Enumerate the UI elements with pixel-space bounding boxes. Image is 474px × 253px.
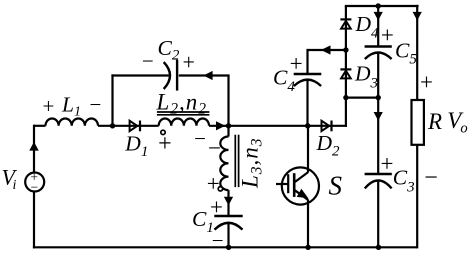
wire top rail xyxy=(345,5,419,7)
diode D4 xyxy=(340,19,351,28)
transistor S gate lead xyxy=(276,183,288,185)
svg-text:−: − xyxy=(424,165,438,191)
diode D2 xyxy=(322,121,332,132)
svg-text:−: − xyxy=(208,136,221,161)
wire node E down to main line xyxy=(345,98,347,127)
junction node C (D2/C4/S) xyxy=(305,123,310,128)
wire bottom rail xyxy=(33,246,417,248)
wire top rail to D4 xyxy=(345,6,347,98)
junction bottom rail C3 xyxy=(376,245,381,250)
svg-text:−: − xyxy=(194,127,206,151)
svg-text:+: + xyxy=(381,151,394,176)
svg-text:+: + xyxy=(420,70,433,95)
wire left vertical top (Vi to main line) xyxy=(33,125,35,174)
capacitor C2 plate xyxy=(176,60,178,91)
wire C4 corner down to plate xyxy=(306,49,308,74)
wire C2 loop top right segment xyxy=(179,74,230,76)
current arrow Vi up xyxy=(29,142,38,151)
current arrow L3 down xyxy=(224,197,233,206)
wire L2 to node B xyxy=(209,125,229,127)
svg-text:+: + xyxy=(290,51,303,76)
transistor S (IGBT) xyxy=(276,167,319,204)
svg-text:+: + xyxy=(158,131,172,157)
transistor S emitter diagonal xyxy=(294,190,308,200)
wire R to bottom rail xyxy=(416,145,418,249)
current arrow C2 loop left xyxy=(203,71,212,80)
wire node B down to L3 xyxy=(227,126,229,137)
inductor L2 xyxy=(159,119,209,126)
junction bottom rail C1 xyxy=(226,245,231,250)
diode D3 xyxy=(340,69,351,78)
wire C2 loop left vertical xyxy=(111,74,113,125)
capacitor C3 curved plate xyxy=(365,180,392,188)
wire node F down to C3 xyxy=(377,98,379,174)
svg-text:+: + xyxy=(182,50,194,75)
capacitor C2 curved plate xyxy=(164,62,170,89)
svg-text:R: R xyxy=(427,109,442,134)
phase dot L3 xyxy=(218,187,222,191)
wire transistor collector xyxy=(307,126,309,173)
svg-text:−: − xyxy=(30,179,38,194)
capacitor C3 plate xyxy=(365,173,392,175)
svg-text:−: − xyxy=(89,93,101,117)
inductor L3 xyxy=(220,137,228,191)
capacitor C5 plate xyxy=(365,45,392,47)
svg-text:−: − xyxy=(142,49,154,73)
coupled inductor core lines L3 xyxy=(235,135,238,187)
resistor R xyxy=(412,100,424,145)
inductor L1 xyxy=(46,119,98,126)
wire C2 loop right vertical xyxy=(227,76,229,126)
diode D1 xyxy=(130,121,140,132)
wire L1 to D1 xyxy=(98,125,159,127)
junction node E (D3/D2 link) xyxy=(343,95,348,100)
junction top rail C5 xyxy=(376,3,381,8)
junction bottom rail S xyxy=(305,245,310,250)
current arrow C4 left xyxy=(321,45,331,54)
junction node B (L2/C2/L3) xyxy=(226,123,231,128)
junction node D (C4/D3/D4) xyxy=(343,47,348,52)
svg-text:S: S xyxy=(329,171,343,201)
junction node F (C5/C3) xyxy=(376,95,381,100)
coupled inductor core lines L2 xyxy=(157,112,210,115)
phase dot L2 xyxy=(161,130,165,134)
current arrow C5 down xyxy=(374,12,383,21)
wire C4 top horizontal xyxy=(308,49,346,51)
svg-text:+: + xyxy=(207,171,220,196)
wire C5 top (from top rail) xyxy=(377,6,379,47)
capacitor C4 plate xyxy=(294,73,322,75)
wire C4 to node C xyxy=(306,80,308,127)
svg-text:−: − xyxy=(212,229,224,253)
wire C3 to bottom rail xyxy=(377,180,379,248)
wire transistor emitter to bottom rail xyxy=(307,200,309,249)
junction node A (L1/D1/C2 loop) xyxy=(110,123,115,128)
transistor S gate bar xyxy=(287,174,289,193)
svg-text:+: + xyxy=(42,94,54,118)
wire C5 to node F xyxy=(377,53,379,98)
current arrow R down xyxy=(413,12,422,21)
wire node E to node F xyxy=(345,96,378,98)
svg-text:+: + xyxy=(381,22,394,47)
current arrow main line right xyxy=(216,121,225,130)
wire node B to node C xyxy=(229,125,348,127)
transistor S emitter arrow xyxy=(297,189,309,199)
wire L3 to C1 xyxy=(227,190,229,216)
voltage source Vi xyxy=(25,170,44,195)
capacitor C1 plate xyxy=(214,215,242,217)
wire left vertical bottom (Vi to bottom rail) xyxy=(33,191,35,249)
svg-text:+: + xyxy=(210,194,223,219)
transistor S collector diagonal xyxy=(294,172,308,182)
capacitor C4 curved plate xyxy=(294,80,321,86)
current arrow C3 down xyxy=(374,112,383,121)
wire C2 loop top left segment xyxy=(111,74,168,76)
wire top rail right corner down to R xyxy=(416,5,418,100)
transistor S base bar xyxy=(293,173,296,197)
capacitor C5 curved plate xyxy=(365,53,392,60)
capacitor C1 curved plate xyxy=(215,223,243,230)
wire C1 to bottom rail xyxy=(227,223,229,249)
wire main line left (to L1) xyxy=(34,125,46,127)
